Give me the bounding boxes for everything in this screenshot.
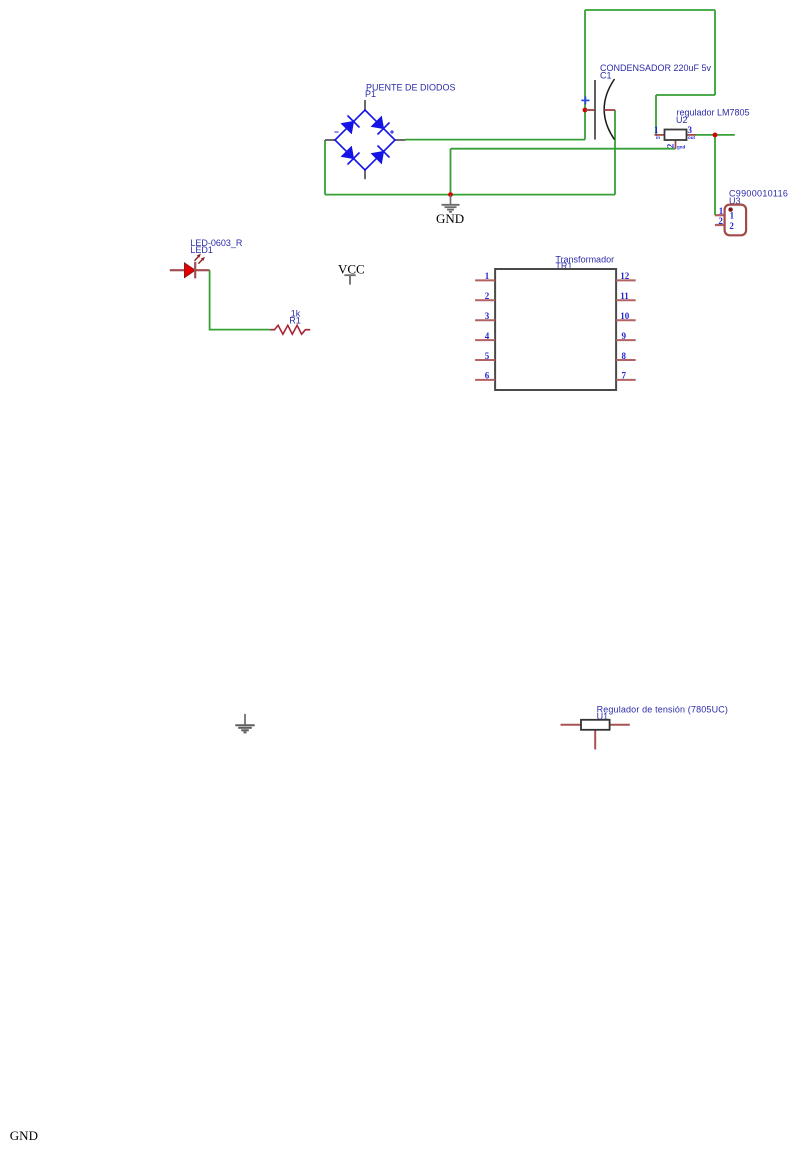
ground GND symbol xyxy=(436,195,464,226)
wire U2 output down to U3 xyxy=(714,135,716,215)
svg-text:5: 5 xyxy=(485,351,490,361)
wire bridge minus down xyxy=(324,140,326,195)
svg-text:1: 1 xyxy=(719,206,724,216)
svg-text:GND: GND xyxy=(436,211,464,226)
svg-text:12: 12 xyxy=(620,271,630,281)
ground symbol (lower left) xyxy=(235,714,254,733)
svg-text:1: 1 xyxy=(730,210,735,220)
svg-text:gnd: gnd xyxy=(677,145,685,150)
wire C1 plus up left side of loop xyxy=(584,10,586,140)
svg-text:3: 3 xyxy=(688,125,693,135)
svg-text:2: 2 xyxy=(485,291,490,301)
svg-text:1: 1 xyxy=(654,125,659,135)
wire down to U2 pin1 xyxy=(655,95,657,135)
wire loop to U2 input jog xyxy=(656,94,715,96)
wire bridge+ to C1 plus xyxy=(405,139,585,141)
svg-text:7: 7 xyxy=(622,371,627,381)
svg-text:PUENTE DE DIODOS: PUENTE DE DIODOS xyxy=(366,82,456,92)
capacitor C1 xyxy=(581,63,711,140)
svg-text:out: out xyxy=(688,135,695,140)
regulator U2 LM7805 xyxy=(654,108,750,150)
power VCC xyxy=(338,261,365,284)
svg-text:in: in xyxy=(656,135,660,140)
svg-text:2: 2 xyxy=(729,221,734,231)
svg-text:1: 1 xyxy=(485,271,490,281)
wire right side of loop xyxy=(714,10,716,95)
wire LED cathode down xyxy=(210,270,271,329)
svg-text:2: 2 xyxy=(666,143,676,148)
resistor R1 1k xyxy=(270,309,310,335)
svg-text:10: 10 xyxy=(620,311,630,321)
wire ground junction up xyxy=(450,149,452,195)
diode bridge P1 xyxy=(325,82,456,179)
junction at U2 output xyxy=(713,133,718,138)
svg-text:R1: R1 xyxy=(289,315,301,325)
svg-text:P1: P1 xyxy=(365,89,376,99)
svg-text:6: 6 xyxy=(485,371,490,381)
junction at ground bus xyxy=(448,192,453,197)
LED LED1 xyxy=(170,238,243,278)
transformer TR1 xyxy=(475,254,636,390)
svg-text:VCC: VCC xyxy=(338,261,365,276)
svg-text:8: 8 xyxy=(622,351,627,361)
svg-text:2: 2 xyxy=(718,216,723,226)
wire C1 minus down xyxy=(614,110,616,195)
svg-text:Regulador de tensión (7805UC): Regulador de tensión (7805UC) xyxy=(597,704,728,714)
svg-text:CONDENSADOR 220uF 5v: CONDENSADOR 220uF 5v xyxy=(600,63,712,73)
svg-text:4: 4 xyxy=(485,331,490,341)
wire to U2 gnd pin xyxy=(451,148,676,150)
svg-text:C1: C1 xyxy=(600,70,612,80)
svg-text:LED1: LED1 xyxy=(190,245,213,255)
junction at C1 plus xyxy=(583,108,588,113)
svg-text:9: 9 xyxy=(622,331,627,341)
wire top of loop xyxy=(585,9,715,11)
svg-text:3: 3 xyxy=(485,311,490,321)
regulator U1 7805UC xyxy=(561,704,729,749)
net label GND (bottom left) xyxy=(10,1128,38,1143)
wire ground bus horizontal xyxy=(325,194,615,196)
connector U3 C9900010116 xyxy=(715,189,788,236)
svg-text:U2: U2 xyxy=(676,115,688,125)
svg-text:11: 11 xyxy=(620,291,629,301)
svg-text:GND: GND xyxy=(10,1128,38,1143)
wire U2 output xyxy=(695,134,735,136)
